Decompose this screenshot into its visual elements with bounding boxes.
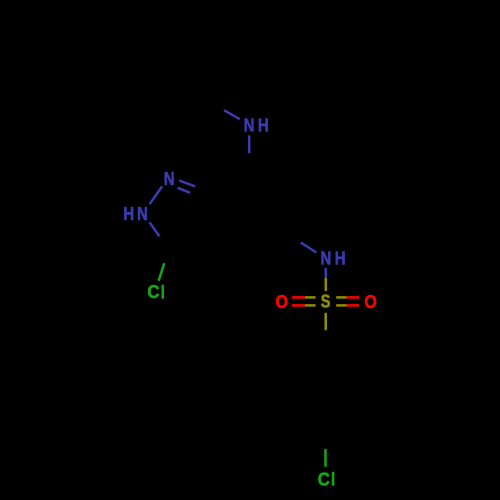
svg-text:O: O [276,291,288,312]
bond C4'-Cl (green half) [324,449,327,467]
bond CH3-NH (blue half) [224,110,240,119]
S=O right, lower line: sulfur half [336,304,346,307]
S=O left, upper line: sulfur half [305,296,316,299]
svg-text:N: N [164,168,175,189]
S=O left, lower line: sulfur half [305,304,316,307]
svg-text:N: N [244,115,255,136]
label O left [276,291,288,312]
double bond N2=C7a inner line (blue half) [178,188,191,193]
bond NH-S blue half [325,268,328,278]
bond C3-Cl (green half) [159,263,165,281]
svg-text:l: l [331,469,335,490]
svg-text:l: l [161,282,165,303]
S=O left, upper line: red half [292,296,305,299]
label S [321,291,331,312]
svg-text:H: H [123,204,134,225]
S=O right, upper line: sulfur half [336,296,346,299]
label O right [364,291,376,312]
label N (pyrazole N2) [164,168,175,189]
bond N2-N1 (full blue) [150,186,163,204]
S=O right, upper line: red half [347,296,359,299]
svg-text:N: N [320,248,331,269]
svg-text:C: C [318,469,330,490]
bond NH-S sulfur half [325,278,328,291]
label Cl (para, bottom) [318,469,330,490]
label NH (methylamino) [244,115,255,136]
svg-text:C: C [147,281,159,302]
bond N1-C3 (blue half) [150,222,160,236]
label Cl (on pyrazole C3) [147,281,159,302]
label HN (pyrazole N1) [123,204,134,225]
S=O left, lower line: red half [292,304,305,307]
bond NH-C7 (blue half) [248,135,251,153]
svg-text:H: H [335,248,346,269]
svg-text:H: H [258,115,269,136]
svg-text:O: O [364,291,376,312]
label NH (sulfonamide) [320,248,331,269]
bond C5-NH (blue half) [301,243,317,253]
svg-text:S: S [321,291,331,312]
bond S-C1' (sulfur half) [324,313,327,330]
double bond N2=C7a outer line (blue half) [179,181,195,187]
S=O right, lower line: red half [347,304,359,307]
svg-text:N: N [137,204,148,225]
